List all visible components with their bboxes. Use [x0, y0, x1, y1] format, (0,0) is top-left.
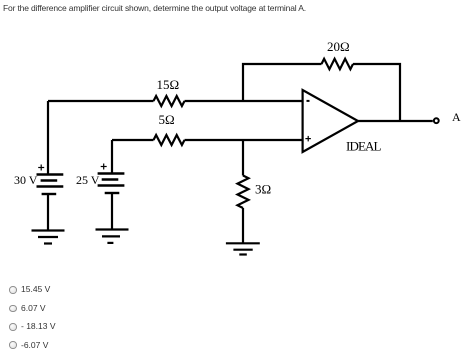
svg-text:25 V: 25 V: [76, 173, 100, 187]
svg-text:IDEAL: IDEAL: [346, 139, 382, 154]
svg-text:A: A: [452, 110, 461, 124]
svg-text:30 V: 30 V: [14, 173, 38, 187]
svg-text:5Ω: 5Ω: [159, 112, 175, 127]
svg-text:3Ω: 3Ω: [255, 182, 271, 197]
svg-text:15Ω: 15Ω: [157, 77, 180, 92]
svg-text:20Ω: 20Ω: [327, 39, 350, 54]
